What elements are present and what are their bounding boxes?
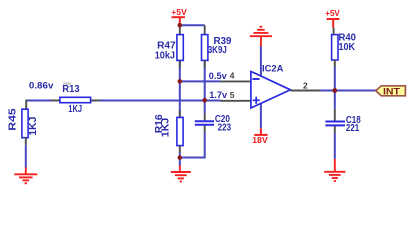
- pin C18 top: [334, 109, 336, 121]
- pin R47 bottom: [179, 60, 181, 67]
- resistor R47: [177, 35, 183, 61]
- ground (right, below C18): [324, 159, 345, 181]
- capacitor C20: [195, 121, 214, 125]
- wire R47 rail (vertical x=179.8): [179, 60, 181, 117]
- svg-text:3K9J: 3K9J: [208, 45, 227, 56]
- wire C20 bottom to ground node: [180, 133, 205, 158]
- ground (left, below R45): [14, 168, 37, 184]
- svg-text:4: 4: [230, 70, 235, 80]
- svg-text:R45: R45: [8, 108, 19, 131]
- node junction dot E (output): [332, 88, 337, 93]
- svg-text:221: 221: [346, 123, 360, 134]
- wire R39 rail down to 1.7v node and C20: [204, 60, 206, 113]
- wire top rail to R39: [180, 24, 205, 26]
- svg-text:IC2A: IC2A: [262, 63, 284, 73]
- power +5V symbol (left, above R47): [172, 17, 185, 25]
- op-amp power symbol (red inverted ground, V+): [250, 27, 272, 47]
- svg-text:10kJ: 10kJ: [155, 51, 175, 62]
- pin op-amp 5: [221, 100, 251, 102]
- wire R40 to output node and down to C18: [334, 67, 336, 109]
- pin R39 top: [204, 25, 206, 34]
- capacitor C18: [325, 122, 345, 126]
- svg-text:2: 2: [303, 80, 308, 90]
- node junction dot A (+5V rail): [178, 23, 183, 28]
- wire output net to INT port: [321, 90, 376, 92]
- pin R13 left: [51, 100, 60, 102]
- wire op-amp V- stem: [260, 103, 262, 129]
- svg-text:1.7v: 1.7v: [209, 89, 228, 100]
- svg-text:0.86v: 0.86v: [29, 80, 54, 91]
- svg-text:+5V: +5V: [325, 8, 340, 18]
- pin C20 top: [204, 114, 206, 121]
- pin R13 right: [91, 100, 100, 102]
- resistor R39: [202, 35, 208, 61]
- node junction dot B (0.5v): [178, 79, 183, 84]
- svg-text:R13: R13: [62, 84, 80, 95]
- pin R40 top: [333, 28, 335, 35]
- pin C18 bottom: [334, 126, 336, 133]
- node junction dot D: [178, 155, 183, 160]
- ground (middle, below R16/C20): [171, 166, 191, 182]
- pin op-amp 4: [221, 80, 251, 82]
- svg-text:5: 5: [230, 90, 235, 100]
- svg-text:10K: 10K: [339, 42, 356, 53]
- power symbol 18V (below op-amp): [260, 128, 262, 135]
- pin R45 bottom: [25, 138, 27, 145]
- svg-text:0.5v: 0.5v: [209, 70, 228, 81]
- resistor R40: [332, 35, 338, 60]
- op-amp plus input mark: [253, 97, 260, 104]
- svg-text:18V: 18V: [252, 135, 268, 145]
- pin R47 top: [179, 26, 181, 34]
- wire net 0.5v: [180, 80, 221, 82]
- svg-text:+5V: +5V: [171, 7, 187, 17]
- svg-text:223: 223: [218, 123, 232, 134]
- node junction dot C (1.7v): [202, 98, 207, 103]
- svg-text:1KJ: 1KJ: [68, 104, 82, 115]
- svg-text:INT: INT: [383, 86, 401, 96]
- pin R16 bottom: [179, 146, 181, 153]
- resistor R45: [22, 109, 28, 138]
- wire op-amp V+ stem: [260, 47, 262, 78]
- port INT: [376, 86, 406, 96]
- power +5V symbol (right, above R40): [327, 19, 340, 28]
- svg-text:1KJ: 1KJ: [28, 117, 39, 136]
- pin R40 bottom: [334, 60, 336, 67]
- resistor R13: [60, 97, 91, 102]
- resistor R16: [177, 117, 183, 145]
- wire R16 bottom to ground node: [179, 153, 181, 166]
- pin op-amp output 2: [290, 90, 320, 92]
- op-amp U1 IC2A triangle: [251, 71, 291, 108]
- op-amp minus input mark: [252, 78, 259, 80]
- pin C20 bottom: [204, 126, 206, 133]
- pin R45 top: [25, 100, 27, 110]
- wire C18 to ground: [334, 133, 336, 159]
- pin R39 bottom: [204, 60, 206, 67]
- wire net 1.7v (long horizontal): [26, 100, 220, 102]
- wire R45 to ground: [25, 145, 27, 168]
- svg-text:1KJ: 1KJ: [160, 118, 171, 138]
- pin R16 top: [179, 111, 181, 118]
